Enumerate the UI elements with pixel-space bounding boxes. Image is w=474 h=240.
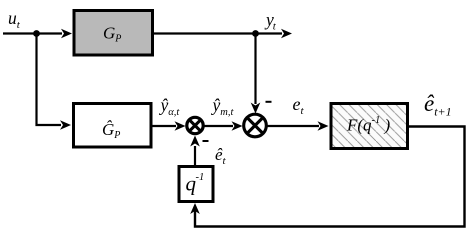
svg-text:F(q-1 ): F(q-1 ) — [346, 115, 391, 135]
minus sign at multiplier bottom — [203, 140, 209, 142]
block Ghat_P — [74, 104, 152, 148]
wire: multiplier to summer — [205, 121, 243, 131]
svg-text:ut: ut — [8, 8, 21, 31]
svg-text:êt: êt — [215, 145, 227, 167]
svg-text:et: et — [293, 94, 305, 117]
node: input junction — [33, 30, 40, 37]
node: y_t junction — [252, 30, 259, 37]
block G_P — [74, 11, 153, 56]
block q^-1 — [179, 167, 213, 202]
block F(q^-1) hatched — [331, 104, 408, 149]
wire: summer to F block — [267, 121, 329, 131]
wire: Ghat_P output to multiplier — [153, 121, 186, 131]
wire: y_t branch down to summer — [251, 34, 261, 114]
svg-text:ŷm,t: ŷm,t — [211, 95, 235, 118]
wire: G_P output to y_t arrow — [154, 29, 292, 39]
minus sign at summer top — [266, 101, 272, 103]
svg-text:ŷα,t: ŷα,t — [159, 95, 181, 118]
wire: F output feedback loop to q^-1 — [190, 127, 464, 227]
summing node X2 (large circle with cross) — [244, 114, 267, 137]
wire: u_t input line — [3, 29, 72, 39]
svg-text:yt: yt — [264, 10, 277, 33]
wire: branch down from u_t to Ghat_P input — [37, 34, 72, 130]
summing node X1 (small circle with cross) — [187, 117, 203, 133]
wire: q^-1 up to multiplier — [190, 136, 200, 166]
svg-text:êt+1: êt+1 — [424, 91, 452, 119]
